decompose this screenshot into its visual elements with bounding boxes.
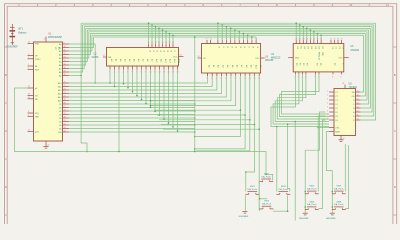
wire SW8 right side	[345, 145, 348, 209]
svg-text:14: 14	[168, 71, 170, 73]
svg-text:W65C22: W65C22	[318, 52, 320, 61]
svg-text:AS6C62: AS6C62	[351, 49, 360, 52]
svg-text:22: 22	[64, 85, 66, 87]
svg-text:17: 17	[357, 91, 359, 93]
svg-text:40: 40	[28, 42, 30, 44]
svg-text:4: 4	[230, 38, 231, 40]
svg-text:4: 4	[28, 111, 29, 113]
svg-text:SO: SO	[35, 96, 38, 98]
svg-text:9: 9	[251, 38, 252, 40]
svg-text:8: 8	[141, 71, 142, 73]
via U4 port wires wrap to keypad encoder U5	[271, 74, 329, 126]
svg-text:14: 14	[158, 42, 160, 44]
svg-text:6: 6	[238, 38, 239, 40]
svg-text:18: 18	[342, 83, 344, 85]
keypad encoder U5 GND pin bottom	[341, 136, 345, 141]
via U4 VCC pin right	[339, 58, 349, 60]
svg-text:6: 6	[225, 78, 226, 80]
svg-text:62256: 62256	[92, 56, 99, 59]
battery BT1	[10, 24, 16, 45]
svg-text:SW6: SW6	[309, 201, 315, 203]
svg-text:Battery: Battery	[19, 32, 28, 35]
svg-text:5: 5	[221, 78, 222, 80]
svg-text:20: 20	[198, 56, 200, 58]
svg-text:12: 12	[159, 71, 161, 73]
svg-text:17: 17	[64, 70, 66, 72]
svg-text:GND/REF: GND/REF	[299, 218, 310, 220]
svg-text:1: 1	[109, 71, 110, 73]
svg-text:10: 10	[150, 71, 152, 73]
svg-text:W65C02S6P: W65C02S6P	[48, 35, 62, 39]
wire bus right wrap verticals to U5 right pins	[361, 23, 376, 120]
ram U2 VCC pin right	[173, 55, 183, 59]
switch SW1	[245, 186, 259, 194]
switch SW8	[332, 201, 346, 209]
svg-text:VC: VC	[54, 47, 56, 50]
svg-text:28: 28	[180, 55, 182, 57]
wire CPU pin SYNC join to line0 vertical	[69, 75, 81, 77]
ground G2	[303, 213, 308, 215]
ram U2 62256 body	[107, 48, 179, 67]
via U4 W65C22 body	[293, 44, 344, 72]
svg-text:SW4: SW4	[281, 186, 287, 188]
ground below U5	[338, 140, 343, 142]
svg-text:28: 28	[64, 109, 66, 111]
svg-text:26: 26	[64, 102, 66, 104]
svg-text:10: 10	[357, 119, 359, 121]
svg-text:D: D	[394, 185, 396, 189]
eeprom U3 28C256 body	[202, 44, 261, 74]
via U4 top stub pins	[330, 38, 343, 50]
svg-text:DA_Push: DA_Push	[307, 187, 317, 190]
wire U5 OSC to net arrow	[319, 127, 329, 129]
svg-text:18: 18	[172, 42, 174, 44]
svg-text:9: 9	[64, 42, 65, 44]
svg-text:φ2O: φ2O	[35, 132, 39, 134]
clock rail wire	[87, 152, 266, 175]
address/data bus horizontal lines (top)	[81, 23, 375, 37]
keypad encoder U5 right pins	[352, 91, 361, 123]
svg-text:26: 26	[64, 99, 66, 101]
svg-text:10: 10	[64, 46, 66, 48]
svg-text:8: 8	[327, 119, 328, 121]
svg-text:15: 15	[162, 42, 164, 44]
svg-text:B: B	[5, 73, 7, 77]
eeprom U3 CE pin left	[198, 56, 207, 60]
svg-text:SW1: SW1	[250, 186, 256, 188]
switch SW3	[260, 201, 274, 209]
wire SW7 right up	[344, 144, 346, 192]
svg-text:17: 17	[169, 42, 171, 44]
svg-text:3: 3	[225, 38, 226, 40]
switch SW6	[305, 201, 319, 209]
svg-text:16: 16	[357, 95, 359, 97]
svg-text:7: 7	[327, 115, 328, 117]
svg-text:VCC: VCC	[255, 58, 260, 60]
svg-text:1: 1	[327, 91, 328, 93]
svg-text:38: 38	[28, 94, 30, 96]
switch SW7	[332, 186, 346, 194]
svg-text:DA_Push: DA_Push	[262, 203, 272, 206]
svg-text:SW8: SW8	[336, 201, 342, 203]
svg-text:DA_Push: DA_Push	[262, 175, 272, 178]
frame column ticks	[38, 4, 370, 7]
svg-text:33: 33	[64, 127, 66, 129]
select line vertical wire	[194, 37, 196, 152]
svg-text:13: 13	[357, 107, 359, 109]
svg-text:1: 1	[217, 38, 218, 40]
svg-text:3: 3	[327, 99, 328, 101]
svg-text:3: 3	[211, 78, 212, 80]
wire SW1 left to ground G1	[244, 196, 246, 211]
svg-text:KBM: KBM	[335, 132, 340, 134]
svg-text:SYNC: SYNC	[35, 59, 41, 61]
eeprom U3 top pins to data bus	[217, 22, 258, 49]
switch SW5	[305, 186, 319, 194]
svg-text:DA_Push: DA_Push	[307, 203, 317, 206]
wire U5 pin Y to SW5 column	[305, 112, 325, 213]
frame row ticks	[5, 47, 397, 215]
eeprom U3 bottom wires nest to address lines	[150, 76, 260, 210]
svg-text:23: 23	[64, 88, 66, 90]
svg-text:15: 15	[172, 71, 174, 73]
svg-text:12: 12	[151, 42, 153, 44]
keypad column drop wires from port bus	[276, 127, 278, 192]
svg-text:7: 7	[136, 71, 137, 73]
ground G1	[242, 211, 247, 213]
keypad encoder U5 74C922 body	[334, 89, 356, 136]
eeprom U3 top stub pins WE OE	[206, 38, 213, 43]
ram U2 top pins to data bus	[148, 22, 175, 53]
svg-text:RDY: RDY	[35, 69, 40, 71]
cpu U1 right pins upper group A0-A9	[59, 42, 69, 77]
svg-text:32: 32	[64, 123, 66, 125]
svg-text:4: 4	[216, 78, 217, 80]
keypad encoder U5 left pins	[327, 91, 339, 123]
ground below cpu U1	[43, 146, 48, 148]
svg-text:SW5: SW5	[309, 186, 315, 188]
svg-text:6: 6	[132, 71, 133, 73]
svg-text:RW: RW	[58, 132, 61, 134]
svg-text:22: 22	[210, 38, 212, 40]
keypad encoder U5 OE OSC pins lower left	[329, 128, 340, 134]
bus left nest vertical wires to CPU pins	[69, 25, 94, 72]
svg-text:26: 26	[295, 38, 297, 40]
svg-text:14: 14	[357, 103, 359, 105]
frame column numbers	[18, 3, 389, 7]
wire U5 pin to SW6 right	[319, 120, 326, 209]
svg-text:11: 11	[64, 49, 66, 51]
svg-text:39: 39	[28, 130, 30, 132]
svg-text:C: C	[5, 129, 7, 133]
svg-text:6: 6	[327, 111, 328, 113]
svg-text:2: 2	[327, 95, 328, 97]
svg-text:12: 12	[357, 111, 359, 113]
svg-text:4: 4	[327, 103, 328, 105]
svg-text:29: 29	[306, 38, 308, 40]
svg-text:5: 5	[327, 107, 328, 109]
svg-text:S6P: S6P	[321, 52, 323, 57]
ground G3	[330, 213, 335, 215]
svg-text:VCC: VCC	[339, 58, 344, 60]
svg-text:D: D	[5, 185, 7, 189]
via U4 GND pin left	[288, 58, 300, 60]
svg-text:16: 16	[165, 42, 167, 44]
svg-text:11: 11	[148, 42, 150, 44]
svg-text:24: 24	[64, 92, 66, 94]
svg-text:2: 2	[207, 78, 208, 80]
svg-text:33: 33	[320, 38, 322, 40]
svg-text:SW7: SW7	[336, 186, 342, 188]
via U4 top pins to data bus	[295, 22, 323, 50]
svg-text:31: 31	[64, 120, 66, 122]
svg-text:3: 3	[118, 71, 119, 73]
svg-text:5: 5	[234, 38, 235, 40]
svg-text:DA_Push: DA_Push	[334, 187, 344, 190]
svg-text:36: 36	[337, 38, 339, 40]
svg-text:SW3: SW3	[264, 201, 270, 203]
svg-text:11: 11	[357, 115, 359, 117]
svg-text:13: 13	[64, 56, 66, 58]
svg-text:29: 29	[64, 113, 66, 115]
svg-text:31: 31	[313, 38, 315, 40]
cpu U1 W65C02S6P body	[34, 42, 63, 141]
svg-text:DA_Push: DA_Push	[248, 188, 258, 191]
svg-text:27: 27	[64, 106, 66, 108]
svg-text:5: 5	[28, 64, 29, 66]
svg-text:18: 18	[64, 74, 66, 76]
svg-text:NMI: NMI	[35, 116, 39, 118]
svg-text:34: 34	[330, 38, 332, 40]
svg-text:37: 37	[341, 38, 343, 40]
svg-text:27: 27	[103, 55, 105, 57]
eeprom U3 bottom pins and wires	[207, 65, 263, 80]
svg-text:GND: GND	[295, 58, 300, 60]
wire U5 KBM to SW7 column	[327, 132, 333, 214]
svg-text:5: 5	[127, 71, 128, 73]
junction dots on select vertical	[194, 103, 196, 105]
svg-text:DA_Push: DA_Push	[279, 188, 289, 191]
svg-text:2: 2	[28, 68, 29, 70]
svg-text:32: 32	[317, 38, 319, 40]
svg-text:8: 8	[247, 38, 248, 40]
svg-text:2: 2	[221, 38, 222, 40]
svg-text:16: 16	[177, 71, 179, 73]
svg-text:W65C22: W65C22	[271, 57, 281, 60]
svg-text:34: 34	[64, 130, 66, 132]
svg-text:1: 1	[28, 54, 29, 56]
svg-text:37: 37	[28, 86, 30, 88]
svg-text:25: 25	[64, 95, 66, 97]
svg-text:DA_Push: DA_Push	[334, 203, 344, 206]
cpu address/data horizontal lines to memory	[69, 73, 226, 132]
svg-text:B: B	[394, 73, 396, 77]
svg-text:GND/REF: GND/REF	[7, 45, 19, 48]
cpu U1 right pins lower group A10-A15 D0-D7 RW	[58, 81, 69, 134]
svg-text:4: 4	[123, 71, 124, 73]
ram U2 WE pin left	[103, 55, 112, 59]
svg-text:10: 10	[255, 38, 257, 40]
wire SW2 feed from clock rail	[266, 174, 273, 180]
svg-text:14: 14	[64, 60, 66, 62]
svg-text:27: 27	[206, 38, 208, 40]
cpu U1 VDD pin top	[44, 37, 46, 43]
svg-text:6: 6	[28, 115, 29, 117]
wire SW2 left vertical	[258, 181, 261, 211]
svg-text:27: 27	[299, 38, 301, 40]
svg-text:30: 30	[64, 116, 66, 118]
wire phi2 from cpu to clock rail	[15, 88, 88, 152]
svg-text:GND/REF: GND/REF	[326, 218, 337, 220]
junction dots keypad	[304, 191, 306, 193]
svg-text:28: 28	[302, 38, 304, 40]
svg-text:15: 15	[357, 99, 359, 101]
frame row letters	[5, 73, 396, 189]
wire CPU pin RWB long vertical to data line	[69, 44, 95, 83]
svg-text:9: 9	[341, 77, 342, 79]
cpu U1 VSS pin bottom	[46, 141, 50, 147]
svg-text:U1: U1	[48, 31, 52, 35]
svg-text:IRQ: IRQ	[35, 113, 39, 115]
switch SW2	[259, 173, 273, 181]
svg-text:15: 15	[64, 63, 66, 65]
svg-text:30: 30	[309, 38, 311, 40]
svg-text:8: 8	[332, 77, 333, 79]
svg-text:13: 13	[155, 42, 157, 44]
svg-text:2: 2	[114, 71, 115, 73]
svg-text:74C922: 74C922	[349, 86, 358, 89]
svg-text:12: 12	[64, 53, 66, 55]
svg-text:9: 9	[145, 71, 146, 73]
svg-text:13: 13	[163, 71, 165, 73]
wire link SW1 row	[260, 198, 267, 200]
svg-text:GND/REF: GND/REF	[239, 216, 250, 218]
svg-text:11: 11	[154, 71, 156, 73]
switch SW4	[276, 186, 290, 194]
eeprom U3 VCC pin right	[255, 58, 264, 60]
cpu U1 left pins	[28, 42, 42, 134]
keypad encoder U5 VCC pin top	[342, 83, 345, 89]
svg-text:36: 36	[28, 97, 30, 99]
wire U5 pin to SW5 right	[318, 116, 325, 192]
svg-text:16: 16	[64, 67, 66, 69]
svg-text:7: 7	[242, 38, 243, 40]
via U4 bottom pins	[294, 63, 343, 79]
svg-text:OSC: OSC	[335, 128, 340, 130]
svg-text:35: 35	[334, 38, 336, 40]
ram U2 bottom pins to address lines	[109, 59, 180, 152]
wire SW3 right to column	[273, 210, 288, 212]
svg-text:C: C	[394, 129, 396, 133]
wire bus line0 vertical down to clock rail	[81, 23, 87, 151]
svg-text:20: 20	[64, 81, 66, 83]
svg-text:BT1: BT1	[19, 28, 24, 31]
svg-text:3: 3	[28, 57, 29, 59]
